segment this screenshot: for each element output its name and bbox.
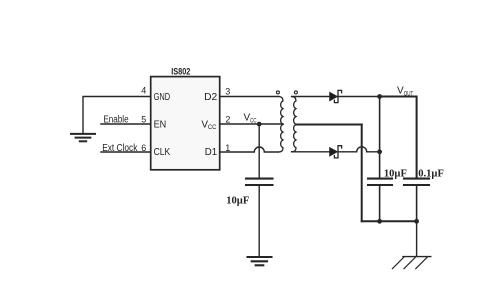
svg-text:OUT: OUT — [404, 90, 414, 97]
transformer T1 secondary winding — [292, 97, 296, 152]
wire top diode cathode to Vout node — [338, 96, 380, 98]
wire ground rail — [362, 220, 417, 222]
earth ground — [392, 257, 430, 269]
svg-text:6: 6 — [141, 143, 146, 153]
wire Vout vertical bus — [379, 97, 381, 178]
svg-text:Enable: Enable — [103, 115, 129, 126]
svg-text:0.1µF: 0.1µF — [418, 168, 444, 179]
wire pin2 VCC to transformer primary center tap — [220, 123, 283, 125]
node rail-C3 junction — [414, 219, 419, 224]
svg-text:EN: EN — [154, 119, 167, 130]
wire center tap drop to ground rail — [361, 125, 363, 222]
IC U1 IS802 body — [151, 77, 220, 170]
svg-text:1: 1 — [225, 143, 230, 153]
svg-text:10µF: 10µF — [226, 196, 249, 207]
wire Enable to pin5 — [101, 123, 151, 125]
node rail-C2 junction — [377, 219, 382, 224]
node VCC junction — [257, 122, 262, 127]
svg-text:CC: CC — [208, 124, 217, 131]
schottky diode (bottom rectifier) — [330, 148, 338, 156]
wire VOUT — [380, 97, 417, 178]
svg-text:5: 5 — [141, 115, 146, 125]
svg-text:2: 2 — [225, 114, 230, 124]
wire pin3 D2 to transformer primary top — [220, 96, 279, 98]
schottky diode (top rectifier) — [330, 92, 338, 100]
svg-text:Ext Clock: Ext Clock — [102, 143, 138, 154]
wire Ext Clock to pin6 — [101, 151, 151, 153]
wire pin4 GND to ground — [83, 97, 151, 134]
node at top diode output — [377, 94, 382, 99]
svg-text:GND: GND — [154, 92, 171, 103]
wire VCC node down to capacitor C1 — [258, 124, 260, 178]
capacitor C2 10uF — [368, 179, 392, 185]
node at bottom diode output — [377, 149, 382, 154]
wire bottom diode cathode (hop over center-tap drop) — [338, 147, 380, 152]
svg-text:IS802: IS802 — [171, 66, 190, 76]
capacitor C1 10uF (Vcc bypass) — [246, 179, 273, 185]
transformer T1 primary winding — [279, 97, 283, 153]
svg-text:10µF: 10µF — [384, 168, 407, 179]
capacitor C3 0.1uF — [404, 179, 429, 185]
wire secondary top to top diode anode — [292, 96, 330, 98]
secondary phase dot — [294, 91, 297, 94]
wire C2 bottom to rail — [379, 186, 381, 221]
wire pin1 D1 to transformer primary bottom (hop over Vcc drop) — [220, 147, 279, 152]
svg-text:D1: D1 — [205, 147, 218, 158]
ground — [71, 134, 95, 141]
wire secondary bottom to bottom diode anode — [292, 151, 330, 153]
svg-text:3: 3 — [225, 87, 230, 97]
svg-text:CC: CC — [250, 117, 257, 124]
svg-text:CLK: CLK — [154, 147, 171, 158]
wire secondary center tap — [296, 124, 362, 126]
primary phase dot — [276, 91, 279, 94]
wire C1 bottom to ground — [258, 186, 260, 256]
wire C3 bottom to rail — [416, 186, 418, 221]
wire rail to earth ground — [416, 221, 418, 256]
ground — [248, 257, 272, 265]
svg-text:4: 4 — [141, 85, 146, 95]
svg-text:D2: D2 — [204, 92, 218, 103]
